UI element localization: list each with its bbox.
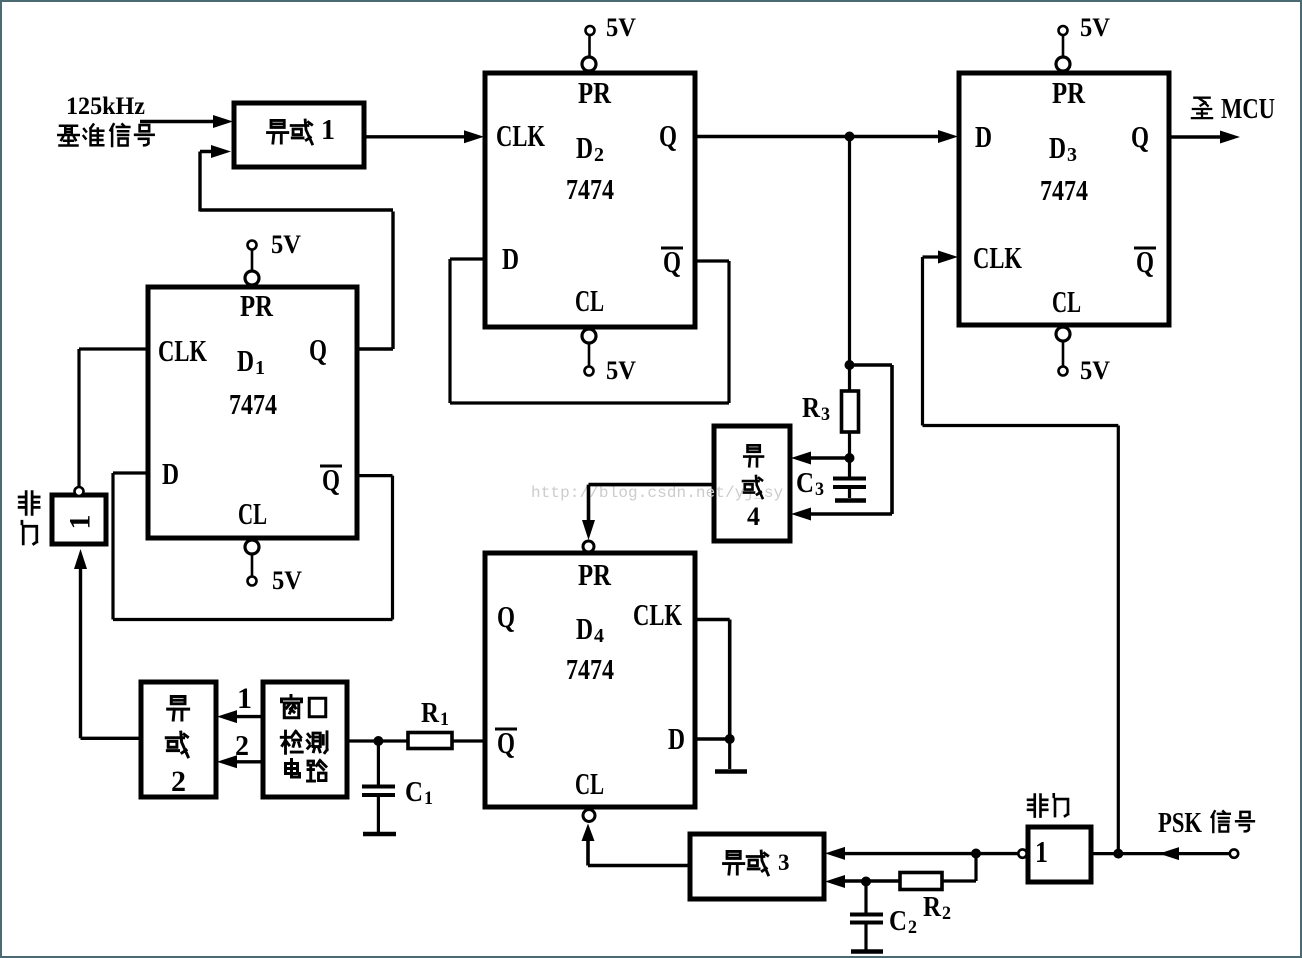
flip-flop D3 box (959, 73, 1169, 325)
svg-text:7474: 7474 (1040, 176, 1088, 207)
wire window detector to XOR2 input 2 (217, 755, 263, 768)
wire junction down to R2 (942, 854, 976, 882)
svg-text:4: 4 (747, 502, 760, 531)
wire node to XOR4 upper input (791, 452, 850, 465)
5V terminal D3 bottom (1056, 327, 1070, 376)
wire R3 to C3 node (848, 432, 851, 458)
svg-text:Q: Q (497, 599, 515, 634)
capacitor C2 (850, 882, 883, 952)
svg-text:125kHz: 125kHz (66, 93, 145, 120)
5V labels (271, 13, 1110, 595)
D4 CL bubble (583, 810, 595, 822)
svg-text:CLK: CLK (158, 333, 207, 368)
svg-text:PR: PR (578, 557, 611, 592)
wire XOR3 output to D4 CL (582, 824, 691, 866)
svg-text:2: 2 (942, 903, 951, 924)
wire D1 Q feedback to XOR1 input 2 (200, 145, 393, 349)
svg-text:D: D (502, 241, 519, 276)
svg-text:PR: PR (240, 288, 273, 323)
wire D2 Q to D3 D (695, 130, 958, 143)
svg-text:PR: PR (578, 75, 611, 110)
svg-text:3: 3 (815, 479, 824, 500)
window detector box (263, 682, 347, 797)
label NOT U2 (1028, 794, 1068, 869)
not gate box U1 (left) (52, 495, 106, 544)
5V terminal D2 bottom (582, 329, 596, 376)
svg-text:C: C (796, 468, 814, 499)
svg-text:MCU: MCU (1221, 93, 1275, 125)
label XOR1 (268, 115, 335, 146)
svg-text:2: 2 (594, 144, 604, 166)
capacitor C1 (362, 741, 396, 834)
svg-text:5V: 5V (1080, 13, 1110, 42)
svg-text:5V: 5V (271, 230, 301, 259)
D4 labels (495, 557, 685, 801)
svg-text:7474: 7474 (566, 175, 614, 206)
svg-text:3: 3 (778, 850, 790, 875)
svg-text:5V: 5V (606, 13, 636, 42)
svg-text:R: R (923, 892, 942, 923)
svg-text:7474: 7474 (566, 655, 614, 686)
svg-text:3: 3 (821, 404, 830, 425)
svg-text:C: C (889, 906, 907, 937)
label R2 (923, 892, 951, 924)
svg-text:C: C (405, 777, 423, 808)
label C2 (889, 906, 917, 938)
svg-text:1: 1 (237, 682, 252, 715)
svg-text:D: D (975, 119, 992, 154)
resistor R1 (408, 733, 452, 749)
svg-text:4: 4 (594, 625, 604, 647)
node junction on Q line (845, 132, 855, 142)
5V terminal D3 top (1056, 26, 1070, 71)
svg-text:D: D (1049, 130, 1066, 165)
svg-text:CLK: CLK (496, 118, 545, 153)
svg-text:5V: 5V (272, 566, 302, 595)
svg-text:5V: 5V (1080, 356, 1110, 385)
xor gate box XOR3 (690, 834, 824, 899)
flip-flop D4 box (485, 553, 695, 807)
svg-text:2: 2 (171, 765, 186, 798)
NOT gate U2 output bubble (1018, 849, 1026, 857)
NOT gate U1 output bubble (75, 487, 84, 496)
label C1 (405, 777, 433, 809)
svg-text:PSK: PSK (1158, 808, 1202, 839)
wire D3 Q to MCU (1169, 131, 1240, 144)
label C3 (796, 468, 824, 500)
label XOR2 (166, 697, 188, 798)
xor gate box XOR1 (234, 103, 364, 167)
label XOR3 (724, 850, 790, 875)
svg-text:1: 1 (440, 709, 449, 730)
wire D2 D to Qbar loop (450, 259, 729, 403)
wire XOR2 output up to NOT gate U1 (74, 549, 141, 738)
wire D1 D to Qbar loop (113, 473, 393, 620)
svg-text:2: 2 (908, 917, 917, 938)
svg-text:CL: CL (238, 496, 267, 531)
svg-text:5V: 5V (606, 356, 636, 385)
wire NOT U1 to D1 CLK (79, 349, 148, 487)
node junction R3/C3 (845, 453, 855, 463)
svg-text:1: 1 (321, 115, 335, 146)
svg-text:D: D (576, 611, 593, 646)
svg-text:CLK: CLK (633, 597, 682, 632)
label R3 (802, 393, 830, 425)
resistor R3 (842, 391, 859, 432)
wire XOR4 output to D4 PR (582, 485, 714, 540)
label window detector (281, 696, 327, 782)
label to MCU (1192, 93, 1275, 125)
node junction above R2 (971, 849, 981, 859)
svg-text:D: D (162, 456, 179, 491)
svg-text:1: 1 (64, 515, 97, 530)
D1 labels (158, 288, 342, 531)
node junction C2 (861, 877, 871, 887)
wire PSK line up-left to D3 CLK (923, 251, 1119, 854)
node junction PSK line (1113, 849, 1123, 859)
label R1 (421, 698, 449, 730)
PSK input terminal (1230, 849, 1238, 857)
wire D4 CLK to D loop (695, 620, 730, 740)
5V terminal D1 bottom (245, 540, 259, 586)
wire NOT output to XOR3 upper input (825, 847, 1018, 860)
watermark (531, 484, 784, 502)
svg-text:3: 3 (1067, 144, 1077, 166)
5V terminal D1 top (245, 241, 259, 286)
node junction C1 (373, 736, 383, 746)
wire XOR1 output to D2 CLK (364, 130, 484, 143)
capacitor C3 (833, 458, 866, 501)
labels 1 and 2 at window detector (235, 682, 252, 762)
svg-text:Q: Q (309, 332, 327, 367)
svg-text:PR: PR (1052, 75, 1085, 110)
xor gate box XOR4 (714, 426, 790, 541)
label NOT U1 (rotated 1) (19, 492, 96, 544)
svg-text:CL: CL (1052, 284, 1081, 319)
node junction above R3 (845, 360, 855, 370)
svg-text:D: D (237, 343, 254, 378)
D4 PR bubble (583, 541, 594, 552)
wire 125kHz input to XOR1 (140, 115, 233, 128)
wire junction right and down to XOR4 lower input (791, 365, 892, 521)
wire window detector to R1 to D4 Qbar (347, 739, 485, 742)
svg-text:D: D (576, 130, 593, 165)
wire PSK terminal to NOT gate input (1091, 847, 1230, 860)
svg-text:1: 1 (255, 357, 265, 379)
wire window detector to XOR2 input 1 (217, 710, 263, 723)
svg-text:CLK: CLK (973, 240, 1022, 275)
svg-text:Q: Q (659, 118, 677, 153)
wire Q line down to R3 (848, 137, 851, 392)
wire R2 to XOR3 lower input (825, 875, 900, 888)
svg-text:D: D (668, 721, 685, 756)
svg-text:7474: 7474 (229, 390, 277, 421)
xor gate box XOR2 (141, 682, 216, 797)
label XOR4 (743, 445, 763, 531)
node junction D4 D (725, 734, 735, 744)
svg-text:Q: Q (1131, 119, 1149, 154)
svg-text:R: R (421, 698, 440, 729)
svg-text:1: 1 (1035, 834, 1048, 869)
D2 labels (496, 75, 683, 318)
svg-text:2: 2 (235, 731, 249, 762)
label 125kHz reference signal (58, 93, 153, 146)
svg-text:CL: CL (575, 766, 604, 801)
D3 labels (973, 75, 1156, 319)
flip-flop D2 box (485, 73, 695, 327)
svg-text:CL: CL (575, 283, 604, 318)
resistor R2 (900, 873, 942, 890)
svg-text:1: 1 (424, 788, 433, 809)
ground at D4 D (715, 739, 747, 772)
5V terminal D2 top (582, 26, 596, 71)
flip-flop D1 box (148, 287, 357, 538)
label PSK signal (1158, 808, 1254, 839)
svg-text:R: R (802, 393, 821, 424)
not gate box U2 (right) (1028, 827, 1091, 882)
